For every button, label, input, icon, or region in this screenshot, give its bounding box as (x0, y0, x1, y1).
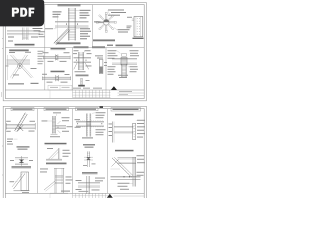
PDF badge letter F (29, 8, 35, 17)
sheet2 panel divider x72.5 (72, 109, 74, 194)
title: TYPICAL CONNECTION 1 (15, 44, 35, 46)
panel2 detail: knee brace (46, 148, 71, 161)
PDF badge letter D (20, 8, 27, 17)
sheet1 title block right cells (50, 90, 144, 98)
sheet1 logo triangle (111, 86, 117, 90)
panel1 detail: bowtie weld section (10, 156, 33, 166)
detail: cross beam-column connection (sheet1 lower-center) (73, 46, 105, 72)
sheet1 vertical divider x72.5 lower half (72, 48, 74, 91)
PDF badge (rounded dark rect) (0, 0, 44, 26)
panel2 title3: shear plate detail (46, 163, 67, 165)
sheet1 left border ticks (2, 39, 4, 98)
detail: beam-column connection (top-left, under badge) (7, 28, 40, 42)
title: TYPICAL CONNECTION 2 (57, 42, 81, 44)
panel2 title2: TYPICAL CONNECTION 17 (45, 143, 67, 145)
sheet2 logo triangle (107, 194, 113, 198)
sheet2 title block strip (cropped) (5, 193, 144, 198)
sheet2 outer border frame (3, 106, 146, 201)
panel4 subtitle2: connect type 2 (115, 150, 134, 152)
sheet2 panel divider x37.5 (37, 109, 39, 194)
panel1 detail: braced column elevation (10, 172, 30, 193)
sheet1 title block revision grid (73, 90, 111, 98)
panel3 title3: section B-B (82, 172, 98, 174)
sheet1 outer border frame (3, 3, 146, 101)
panel2 detail: column with beam seat (42, 112, 73, 137)
label: RC244-A (133, 38, 144, 39)
panel1 title box: TYPICAL CONNECTION 14 (11, 108, 34, 111)
panel3 subtitle: section view (83, 144, 95, 148)
detail: pedestal section under cross (sheet1 lower-center) (76, 75, 90, 87)
panel3 title box: TYPICAL CONNECTION 18 (76, 108, 99, 111)
detail: moment connection (sheet1 lower-right) (107, 45, 139, 78)
sheet1 vertical divider x45 (44, 5, 46, 90)
panel4 detail: braced shear connection type 2 (111, 155, 146, 189)
panel1 detail: brace through beam (6, 113, 36, 145)
detail: bolted splice plate elevation (far top-right) (127, 17, 143, 37)
text row above sheet1 title strip (73, 87, 102, 90)
detail: column-beam cross connection (top-center) (33, 4, 92, 45)
sheet1 vertical divider x92.5 top half (92, 5, 94, 48)
title: gusset plan (93, 40, 115, 42)
panel2 detail: frame elevation (40, 168, 73, 193)
sheet2 inner border frame (5, 109, 144, 201)
PDF badge letter P (12, 8, 19, 17)
sheet1 horizontal divider y47.5 (5, 47, 144, 49)
detail: beam splice section B (sheet1 mid col) (42, 71, 71, 83)
panel2 title box: TYPICAL CONNECTION 16 (44, 108, 69, 111)
detail: diagonal brace gusset connection (sheet1 lower-left) (6, 50, 44, 85)
panel4 detail: shear tab connection type 1 (109, 120, 146, 143)
sheet2 dark tick on top border (100, 106, 104, 108)
panel3 detail: cross section B-B (76, 176, 106, 194)
panel3 detail: cross column-beam with welds (75, 112, 106, 138)
panel4 subtitle1: connect type 1 (115, 114, 134, 116)
sheet1 title strip top line y90 (5, 89, 144, 91)
detail: gusset plate bolt-circle plan (top-right) (94, 10, 130, 33)
sheet2 left border ticks (2, 146, 3, 175)
panel4 title box: shear plate schedule (111, 108, 141, 111)
sheet2 title block right cells (50, 191, 144, 198)
sheet1 vertical divider x106 lower half (105, 48, 107, 91)
sheet1 stamp box above strip (48, 85, 72, 90)
panel1 subtitle: section detail (17, 146, 30, 149)
sheet2 panel divider x107.5 (107, 109, 109, 194)
panel3 detail: weld section (83, 152, 96, 168)
sheet1 inner border frame (5, 5, 144, 99)
panel1 title2: TYPICAL CONNECTION 15 (12, 166, 32, 168)
detail: shaded column elevation (sheet1 lower-center right) (95, 55, 107, 73)
page background (0, 0, 149, 198)
detail: beam splice section A (sheet1 mid col) (43, 48, 71, 62)
